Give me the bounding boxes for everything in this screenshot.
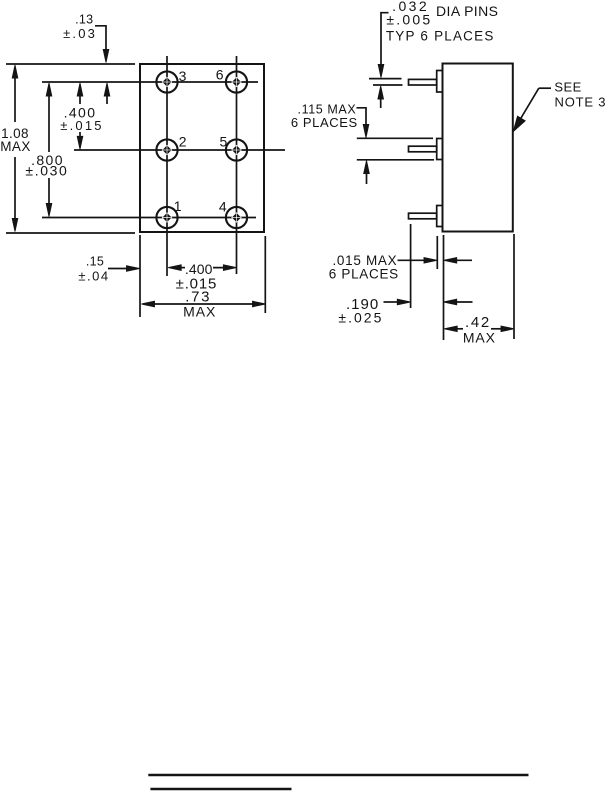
wire body-left extension line [443, 235, 445, 340]
wire pin column right line [236, 56, 238, 274]
dimension .115 lower arrow [364, 161, 370, 184]
svg-text:3: 3 [179, 68, 187, 84]
dimension .032 leader bracket [378, 13, 388, 78]
wire pin row 2 line [74, 149, 285, 151]
pin top seal bump [437, 71, 443, 93]
svg-text:2: 2 [179, 133, 187, 149]
wire pin diameter lower extension line [373, 84, 403, 86]
label .400 (vertical dim) [58, 105, 104, 131]
svg-text:±.005: ±.005 [386, 11, 432, 27]
svg-text:5: 5 [220, 133, 228, 149]
label .42 [463, 315, 491, 328]
svg-text:1: 1 [174, 198, 182, 214]
dimension .032 lower arrow [378, 86, 384, 108]
svg-text:6 PLACES: 6 PLACES [329, 267, 399, 282]
wire bottom edge extension line [6, 232, 135, 234]
wire seal-left extension line [436, 236, 438, 269]
wire body-right extension line [513, 234, 515, 339]
svg-text:±.03: ±.03 [63, 26, 97, 41]
dimension .400 vertical line [77, 83, 83, 149]
wire top edge extension line [6, 63, 135, 65]
dimension .13 +-.03 leader [95, 26, 110, 104]
pin 4 [226, 207, 247, 228]
body outline (top view) [140, 64, 264, 232]
leader SEE NOTE 3 [513, 88, 551, 131]
wire body-right extension line below [264, 236, 266, 313]
svg-text:6 PLACES: 6 PLACES [291, 115, 358, 130]
pin 6 [226, 71, 247, 92]
svg-text:TYP 6 PLACES: TYP 6 PLACES [386, 28, 495, 43]
dimension .42 MAX line [444, 326, 514, 332]
svg-text:NOTE 3: NOTE 3 [555, 95, 606, 110]
wire pin-tip extension line [410, 224, 412, 308]
pin top lead [409, 79, 437, 85]
rule bottom short line [150, 788, 291, 790]
dimension .190 arrows [384, 299, 473, 305]
wire pin row 3 line [42, 217, 256, 219]
label 1.08 [0, 124, 32, 154]
pin middle lead [409, 146, 437, 152]
label .400 (horizontal dim) [186, 260, 213, 276]
dimension .400 horizontal line [168, 265, 236, 271]
svg-text:±.04: ±.04 [78, 269, 109, 284]
dimension .115 leader [357, 108, 369, 138]
svg-text:SEE: SEE [554, 80, 582, 95]
svg-text:±.015: ±.015 [60, 118, 103, 133]
pin middle seal bump [437, 139, 443, 160]
pin bottom seal bump [437, 206, 443, 227]
svg-text:MAX: MAX [183, 304, 216, 320]
wire body-left extension line below [139, 235, 141, 317]
wire pin row 1 line [42, 81, 258, 83]
pin 3 [156, 71, 177, 92]
dimension .73 MAX line [142, 301, 266, 307]
svg-text:DIA PINS: DIA PINS [436, 3, 498, 19]
dimension .15 leader arrow [108, 266, 140, 272]
dimension 1.08 MAX line [12, 65, 18, 232]
svg-text:MAX: MAX [0, 139, 30, 154]
svg-text:MAX: MAX [463, 330, 496, 346]
dimension .015 arrows [398, 258, 473, 264]
rule bottom long line [148, 774, 528, 776]
label .800 [28, 152, 70, 178]
wire seal bottom extension line [357, 159, 434, 161]
dimension .800 line [46, 83, 52, 217]
wire pin column left line [166, 56, 168, 276]
pin 2 [156, 139, 177, 160]
body outline (side view) [443, 64, 513, 232]
svg-text:6: 6 [216, 67, 224, 83]
pin 1 [156, 207, 177, 228]
wire pin diameter upper extension line [369, 78, 402, 80]
wire seal top extension line [357, 137, 433, 139]
svg-text:±.025: ±.025 [338, 310, 383, 326]
svg-text:4: 4 [219, 199, 227, 215]
pin bottom lead [409, 213, 437, 219]
svg-text:.15: .15 [86, 254, 104, 268]
svg-text:.13: .13 [75, 13, 93, 27]
svg-text:.42: .42 [465, 314, 491, 331]
pin 5 [226, 139, 247, 160]
svg-text:±.030: ±.030 [25, 163, 68, 179]
